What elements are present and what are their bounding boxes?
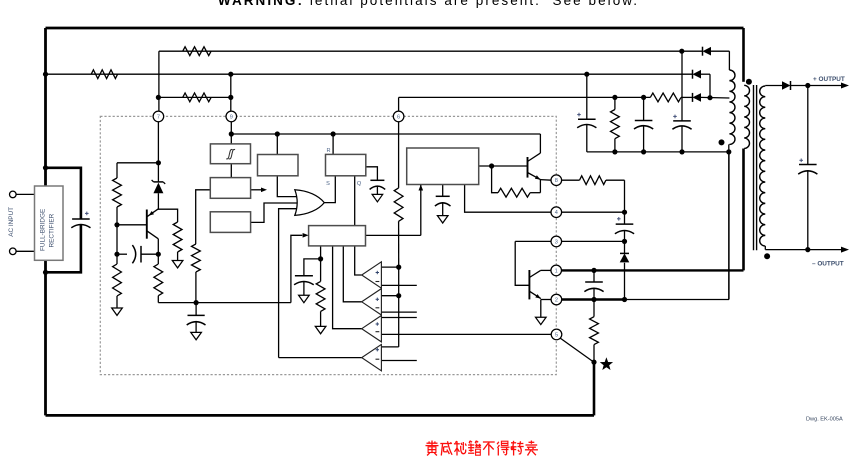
svg-text:+ OUTPUT: + OUTPUT (813, 76, 845, 83)
svg-text:FULL-BRIDGE: FULL-BRIDGE (40, 209, 47, 251)
svg-text:8: 8 (555, 178, 558, 184)
svg-text:6: 6 (397, 114, 400, 120)
svg-text:Dwg. EK-005A: Dwg. EK-005A (806, 417, 843, 423)
svg-text:7: 7 (157, 114, 160, 120)
svg-text:Q: Q (357, 181, 362, 187)
svg-text:AC INPUT: AC INPUT (8, 207, 15, 237)
svg-text:4: 4 (555, 210, 558, 216)
svg-text:1: 1 (555, 268, 558, 274)
svg-text:R: R (326, 148, 330, 154)
svg-text:RECTIFIER: RECTIFIER (49, 213, 56, 247)
svg-text:– OUTPUT: – OUTPUT (812, 261, 844, 268)
svg-text:9: 9 (230, 114, 233, 120)
svg-text:S: S (326, 181, 330, 187)
svg-text:5: 5 (555, 332, 558, 338)
svg-text:2: 2 (555, 297, 558, 303)
svg-text:3: 3 (555, 239, 558, 245)
